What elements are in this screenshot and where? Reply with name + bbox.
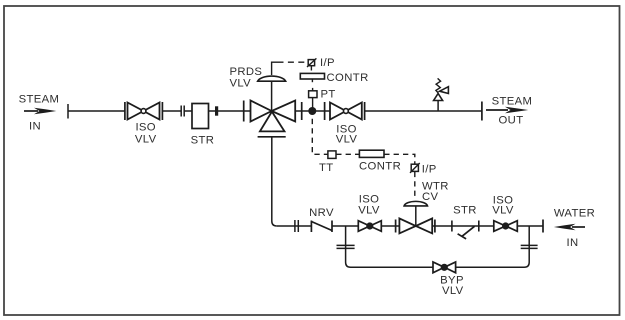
svg-text:OUT: OUT xyxy=(499,114,524,126)
svg-text:CONTR: CONTR xyxy=(359,161,401,173)
svg-text:VLV: VLV xyxy=(336,134,358,146)
svg-text:STEAM: STEAM xyxy=(492,96,533,108)
svg-text:ISO: ISO xyxy=(135,122,156,134)
svg-text:I/P: I/P xyxy=(422,164,437,176)
svg-text:PT: PT xyxy=(321,89,336,101)
svg-text:I/P: I/P xyxy=(320,57,335,69)
svg-text:IN: IN xyxy=(567,237,579,249)
svg-text:STR: STR xyxy=(453,205,477,217)
svg-text:STR: STR xyxy=(191,135,215,147)
svg-text:VLV: VLV xyxy=(230,78,252,90)
svg-text:VLV: VLV xyxy=(358,205,380,217)
svg-text:STEAM: STEAM xyxy=(19,93,60,105)
svg-text:NRV: NRV xyxy=(309,207,334,219)
svg-text:CV: CV xyxy=(422,191,439,203)
svg-text:IN: IN xyxy=(29,120,41,132)
svg-text:VLV: VLV xyxy=(442,285,464,297)
svg-text:WATER: WATER xyxy=(554,207,595,219)
svg-text:CONTR: CONTR xyxy=(327,72,369,84)
svg-text:VLV: VLV xyxy=(492,205,514,217)
svg-text:PRDS: PRDS xyxy=(230,66,263,78)
svg-text:TT: TT xyxy=(319,162,334,174)
svg-text:VLV: VLV xyxy=(135,133,157,145)
